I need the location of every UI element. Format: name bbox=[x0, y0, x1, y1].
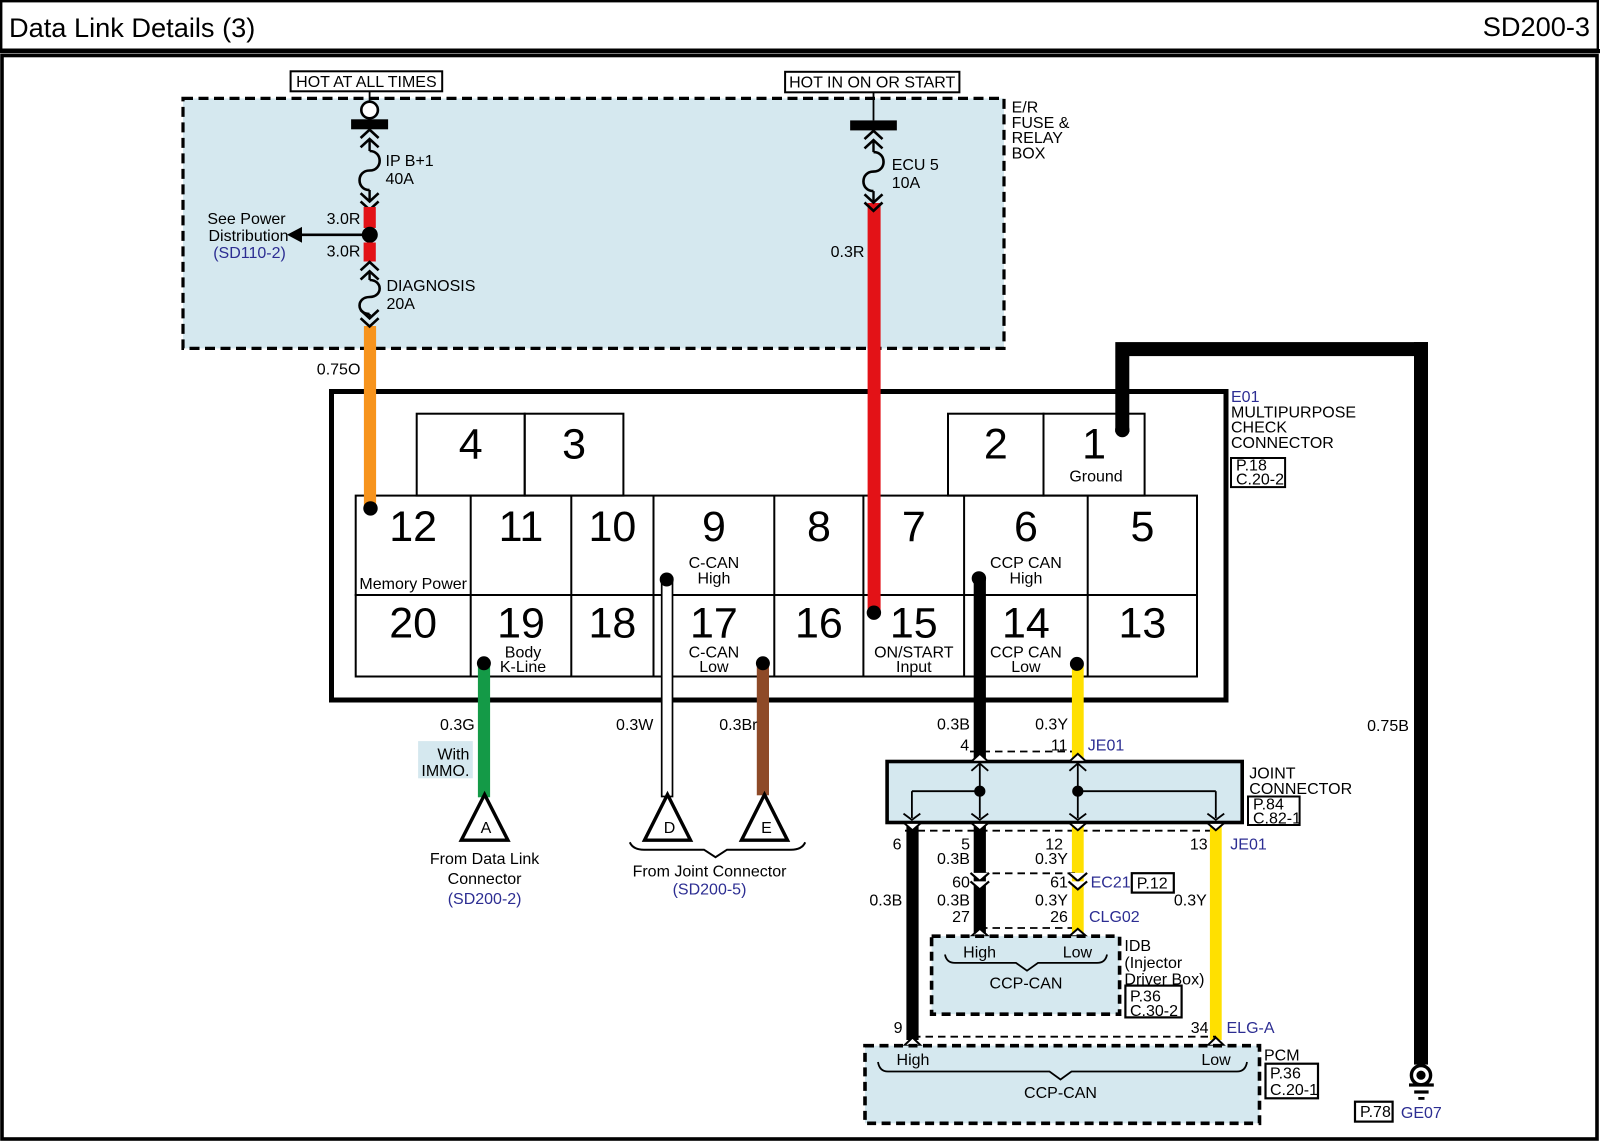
brace under D and E bbox=[630, 842, 805, 857]
pin box 4 bbox=[417, 414, 525, 496]
pin 12 bbox=[359, 503, 467, 593]
triangle A bbox=[461, 795, 508, 841]
fuse IP B+1 40A bbox=[351, 91, 434, 209]
svg-text:15: 15 bbox=[890, 600, 938, 648]
pin 8 bbox=[807, 503, 831, 551]
wire 0.3Y right branch bbox=[1174, 823, 1222, 1041]
label JOINT CONNECTOR bbox=[1249, 766, 1352, 799]
svg-text:Data Link Details (3): Data Link Details (3) bbox=[9, 12, 255, 43]
svg-text:0.75B: 0.75B bbox=[1367, 718, 1409, 735]
label HOT AT ALL TIMES bbox=[291, 71, 443, 91]
svg-text:4: 4 bbox=[459, 421, 483, 469]
svg-text:GE07: GE07 bbox=[1401, 1105, 1442, 1122]
svg-text:SD200-3: SD200-3 bbox=[1483, 11, 1590, 42]
svg-text:0.3Br: 0.3Br bbox=[719, 717, 758, 734]
connector chevron PCM entry left bbox=[904, 1038, 921, 1046]
node pin 6 bbox=[972, 571, 986, 585]
label box P.36 C.20-1 bbox=[1266, 1064, 1319, 1099]
svg-text:IP B+1: IP B+1 bbox=[386, 153, 434, 170]
svg-text:Low: Low bbox=[699, 659, 729, 676]
wire 0.3Y from pin 14 bbox=[1035, 664, 1084, 763]
connector chevron IDB entry left bbox=[971, 929, 988, 937]
svg-text:19: 19 bbox=[497, 600, 545, 648]
label box P.78 bbox=[1355, 1102, 1393, 1122]
pin 14 bbox=[990, 600, 1062, 677]
label PCM bbox=[1264, 1048, 1300, 1065]
joint connector internal bus left bbox=[904, 764, 989, 820]
joint connector internal bus right bbox=[1069, 764, 1224, 820]
svg-text:13: 13 bbox=[1190, 837, 1208, 854]
svg-text:9: 9 bbox=[894, 1020, 903, 1037]
arrow to power distribution bbox=[287, 227, 370, 243]
svg-text:High: High bbox=[897, 1052, 930, 1069]
svg-text:A: A bbox=[481, 820, 492, 837]
title separator line bbox=[0, 49, 1600, 53]
node pin 15 bbox=[867, 606, 881, 620]
svg-text:Ground: Ground bbox=[1069, 469, 1122, 486]
junction node bbox=[362, 227, 378, 243]
connector chevron JC exit 3 bbox=[1069, 823, 1086, 830]
svg-text:3.0R: 3.0R bbox=[327, 244, 361, 261]
dashed link EC21 bbox=[980, 872, 1078, 874]
connector EC21 crossing right bbox=[1069, 873, 1088, 890]
svg-text:CONNECTOR: CONNECTOR bbox=[1249, 781, 1352, 798]
label E/R FUSE & RELAY BOX bbox=[1012, 100, 1070, 163]
IDB box bbox=[932, 936, 1120, 1014]
joint connector box bbox=[887, 762, 1242, 823]
svg-text:(SD200-5): (SD200-5) bbox=[673, 882, 747, 899]
svg-text:3.0R: 3.0R bbox=[327, 211, 361, 228]
svg-text:High: High bbox=[963, 945, 996, 962]
svg-text:C.82-1: C.82-1 bbox=[1253, 811, 1301, 828]
svg-text:0.3G: 0.3G bbox=[440, 717, 475, 734]
svg-text:ELG-A: ELG-A bbox=[1227, 1020, 1275, 1037]
svg-text:High: High bbox=[1009, 571, 1042, 588]
node pin 14 bbox=[1070, 657, 1084, 671]
title Data Link Details (3) bbox=[9, 12, 255, 43]
pin box 1 bbox=[1044, 414, 1145, 496]
svg-text:1: 1 bbox=[1082, 421, 1106, 469]
svg-text:See Power: See Power bbox=[207, 211, 286, 228]
svg-text:Low: Low bbox=[1011, 659, 1041, 676]
pin 7 bbox=[902, 503, 926, 551]
label From Joint Connector (SD200-5) bbox=[633, 864, 788, 899]
dashed link JE01 entry bbox=[970, 751, 1078, 753]
svg-text:18: 18 bbox=[588, 600, 636, 648]
svg-text:2: 2 bbox=[984, 421, 1008, 469]
pin 18 bbox=[588, 600, 636, 648]
svg-text:0.3B: 0.3B bbox=[937, 893, 970, 910]
svg-text:CCP CAN: CCP CAN bbox=[990, 555, 1062, 572]
svg-text:E: E bbox=[761, 820, 772, 837]
label IDB (Injector Driver Box) bbox=[1124, 938, 1204, 989]
svg-text:4: 4 bbox=[960, 738, 969, 755]
bottom pin row grid bbox=[356, 595, 1197, 677]
svg-text:EC21: EC21 bbox=[1091, 875, 1131, 892]
svg-text:Low: Low bbox=[1201, 1052, 1231, 1069]
svg-text:6: 6 bbox=[1014, 503, 1038, 551]
PCM box bbox=[865, 1046, 1260, 1124]
svg-text:0.3R: 0.3R bbox=[831, 244, 865, 261]
label box P.12 bbox=[1132, 873, 1174, 892]
pin 20 bbox=[389, 600, 437, 648]
connector chevron IDB entry right bbox=[1069, 929, 1086, 937]
pin 19 bbox=[497, 600, 546, 677]
svg-text:JE01: JE01 bbox=[1230, 837, 1267, 854]
svg-text:Input: Input bbox=[896, 659, 932, 676]
label HOT IN ON OR START bbox=[785, 72, 959, 93]
pin 11 bbox=[499, 503, 544, 551]
svg-text:BOX: BOX bbox=[1012, 145, 1046, 162]
svg-text:8: 8 bbox=[807, 503, 831, 551]
svg-text:CONNECTOR: CONNECTOR bbox=[1231, 435, 1334, 452]
svg-text:3: 3 bbox=[562, 421, 586, 469]
svg-text:High: High bbox=[697, 571, 730, 588]
svg-text:Connector: Connector bbox=[448, 871, 522, 888]
pin 16 bbox=[795, 600, 843, 648]
label box P.18 C.20-2 bbox=[1231, 458, 1285, 489]
svg-text:11: 11 bbox=[1051, 738, 1068, 755]
svg-text:Distribution: Distribution bbox=[208, 228, 288, 245]
svg-text:9: 9 bbox=[702, 503, 726, 551]
svg-text:From Data Link: From Data Link bbox=[430, 851, 540, 868]
svg-text:P.36: P.36 bbox=[1270, 1066, 1301, 1083]
svg-text:34: 34 bbox=[1191, 1020, 1209, 1037]
svg-text:0.3B: 0.3B bbox=[869, 893, 902, 910]
wire 0.3B from pin 6 bbox=[937, 578, 986, 762]
svg-text:(SD110-2): (SD110-2) bbox=[213, 245, 286, 262]
pin 17 bbox=[689, 600, 740, 677]
label CLG02 bbox=[1089, 909, 1140, 926]
svg-text:16: 16 bbox=[795, 600, 843, 648]
pin 13 bbox=[1118, 600, 1166, 648]
svg-text:From Joint Connector: From Joint Connector bbox=[633, 864, 788, 881]
label ELG-A bbox=[1227, 1020, 1275, 1037]
svg-text:ECU 5: ECU 5 bbox=[892, 157, 939, 174]
page code SD200-3 bbox=[1483, 11, 1590, 42]
svg-text:11: 11 bbox=[499, 503, 544, 551]
ground GE07 bbox=[1409, 1066, 1434, 1100]
svg-text:D: D bbox=[664, 820, 676, 837]
dashed link PCM entry bbox=[913, 1036, 1216, 1038]
svg-text:6: 6 bbox=[893, 837, 902, 854]
pin 9 bbox=[689, 503, 740, 588]
label JE01 top bbox=[1088, 738, 1125, 755]
svg-text:20A: 20A bbox=[387, 296, 416, 313]
wire ground 0.75B black top run bbox=[1115, 342, 1428, 1065]
svg-text:IDB: IDB bbox=[1124, 938, 1151, 955]
svg-text:JE01: JE01 bbox=[1088, 738, 1125, 755]
dashed link JE01 exit bbox=[905, 830, 1217, 832]
svg-text:PCM: PCM bbox=[1264, 1048, 1300, 1065]
node pin 17 bbox=[756, 656, 770, 670]
triangle E bbox=[742, 795, 788, 841]
svg-text:12: 12 bbox=[389, 503, 437, 551]
node pin 9 bbox=[660, 573, 674, 587]
svg-text:10: 10 bbox=[588, 503, 636, 551]
svg-text:P.12: P.12 bbox=[1137, 876, 1168, 893]
fuse DIAGNOSIS 20A bbox=[360, 262, 476, 327]
pin box 2 bbox=[948, 414, 1044, 496]
fuse ECU 5 10A bbox=[850, 92, 939, 211]
svg-text:HOT AT ALL TIMES: HOT AT ALL TIMES bbox=[296, 74, 437, 91]
svg-text:13: 13 bbox=[1118, 600, 1166, 648]
svg-text:K-Line: K-Line bbox=[500, 659, 546, 676]
connector EC21 crossing left bbox=[971, 873, 990, 890]
label JE01 exit bbox=[1230, 837, 1267, 854]
svg-text:(SD200-2): (SD200-2) bbox=[448, 891, 522, 908]
svg-text:60: 60 bbox=[952, 875, 970, 892]
wire 3.0R lower red segment bbox=[327, 243, 376, 262]
title header band border bbox=[1, 1, 1598, 50]
svg-text:61: 61 bbox=[1050, 875, 1068, 892]
svg-text:17: 17 bbox=[690, 600, 738, 648]
wire 0.3B middle branch bbox=[937, 823, 986, 937]
svg-text:Memory Power: Memory Power bbox=[359, 576, 467, 593]
node pin 12 bbox=[363, 501, 377, 515]
connector chevron JC entry left bbox=[971, 754, 988, 771]
connector chevron JC exit 4 bbox=[1207, 823, 1224, 830]
E/R fuse and relay box bbox=[183, 98, 1004, 348]
svg-text:0.3Y: 0.3Y bbox=[1035, 893, 1068, 910]
svg-text:C.20-1: C.20-1 bbox=[1270, 1082, 1318, 1099]
connector E01 outer box bbox=[332, 392, 1227, 701]
svg-text:C.20-2: C.20-2 bbox=[1236, 472, 1284, 489]
wire 0.3W white bbox=[616, 580, 672, 797]
svg-text:DIAGNOSIS: DIAGNOSIS bbox=[387, 278, 476, 295]
label GE07 bbox=[1401, 1105, 1442, 1122]
wire 0.3B left branch bbox=[869, 823, 918, 1041]
svg-text:C-CAN: C-CAN bbox=[689, 555, 740, 572]
svg-text:26: 26 bbox=[1050, 909, 1068, 926]
node pin 19 bbox=[477, 656, 491, 670]
wire 0.3Br brown bbox=[719, 663, 769, 795]
svg-text:10A: 10A bbox=[892, 175, 921, 192]
svg-text:Low: Low bbox=[1063, 945, 1093, 962]
svg-text:CLG02: CLG02 bbox=[1089, 909, 1140, 926]
pin 6 bbox=[990, 503, 1062, 588]
svg-text:40A: 40A bbox=[386, 171, 415, 188]
connector chevron JC entry right bbox=[1069, 754, 1086, 771]
svg-text:JOINT: JOINT bbox=[1249, 766, 1295, 783]
wire 3.0R upper red segment bbox=[327, 207, 376, 228]
middle pin row grid bbox=[356, 496, 1197, 595]
connector chevron PCM entry right bbox=[1207, 1038, 1224, 1046]
svg-text:0.3Y: 0.3Y bbox=[1174, 893, 1207, 910]
svg-text:CCP-CAN: CCP-CAN bbox=[990, 976, 1063, 993]
dashed link CLG02 bbox=[980, 927, 1072, 929]
svg-text:0.3W: 0.3W bbox=[616, 717, 654, 734]
connector chevron JC exit 2 bbox=[971, 823, 988, 830]
pin 5 bbox=[1130, 503, 1154, 551]
wire 0.75O orange bbox=[317, 326, 376, 509]
svg-text:IMMO.: IMMO. bbox=[421, 763, 469, 780]
label From Data Link Connector (SD200-2) bbox=[430, 851, 540, 908]
svg-text:0.3B: 0.3B bbox=[937, 851, 970, 868]
with IMMO note bbox=[418, 741, 473, 780]
label box P.36 C.30-2 bbox=[1125, 986, 1181, 1020]
svg-text:P.78: P.78 bbox=[1360, 1104, 1391, 1121]
svg-text:With: With bbox=[437, 747, 469, 764]
svg-text:7: 7 bbox=[902, 503, 926, 551]
wire 0.3G green bbox=[440, 663, 490, 797]
node pin 1 bbox=[1115, 423, 1129, 437]
pin 10 bbox=[588, 503, 636, 551]
svg-text:0.3Y: 0.3Y bbox=[1035, 851, 1068, 868]
label EC21 bbox=[1091, 875, 1131, 892]
wire 0.3R red bbox=[831, 203, 881, 613]
svg-text:(Injector: (Injector bbox=[1124, 955, 1182, 972]
wire 0.3Y middle branch bbox=[1035, 823, 1084, 937]
svg-text:HOT IN ON OR START: HOT IN ON OR START bbox=[789, 74, 955, 91]
svg-text:0.75O: 0.75O bbox=[317, 362, 361, 379]
svg-text:20: 20 bbox=[389, 600, 437, 648]
svg-text:C.30-2: C.30-2 bbox=[1130, 1003, 1178, 1020]
label box P.84 C.82-1 bbox=[1248, 797, 1301, 828]
svg-text:0.3B: 0.3B bbox=[937, 717, 970, 734]
pin box 3 bbox=[525, 414, 624, 496]
svg-text:CCP-CAN: CCP-CAN bbox=[1024, 1085, 1097, 1102]
triangle D bbox=[645, 795, 691, 841]
svg-text:0.3Y: 0.3Y bbox=[1035, 717, 1068, 734]
pin 15 bbox=[874, 600, 954, 677]
connector chevron JC exit 1 bbox=[904, 823, 921, 830]
svg-text:14: 14 bbox=[1002, 600, 1050, 648]
label See Power Distribution (SD110-2) bbox=[207, 211, 288, 262]
svg-text:27: 27 bbox=[952, 909, 970, 926]
svg-text:5: 5 bbox=[1130, 503, 1154, 551]
label E01 MULTIPURPOSE CHECK CONNECTOR bbox=[1231, 389, 1356, 452]
